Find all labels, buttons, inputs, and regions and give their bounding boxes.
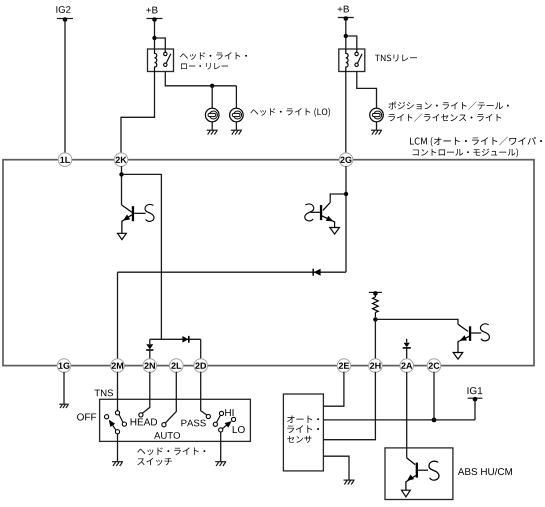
- switch arm LO: [223, 422, 231, 429]
- wire resistor to 2H: [374, 319, 376, 359]
- junction 2C on IG1 line: [432, 418, 437, 423]
- wire +B to relay coil: [154, 19, 156, 49]
- transistor Q4 emitter arrow: [407, 475, 414, 481]
- wire sensor to ground: [323, 456, 349, 480]
- label AUTO: [154, 432, 180, 439]
- transistor Q3 bar: [469, 326, 471, 341]
- label HI: [225, 409, 233, 416]
- label headlight switch line2: [137, 458, 172, 466]
- wire 2N-2D header: [150, 338, 201, 340]
- label TNS relay: [375, 54, 417, 61]
- wire 2G junction to transistor Q2: [330, 194, 346, 203]
- transistor Q4 emitter: [406, 476, 416, 491]
- wire 2M to TNS contact: [117, 372, 119, 411]
- wire 2C down: [433, 372, 435, 420]
- wire to lamp 1: [211, 86, 213, 109]
- label position/tail/license line2: [389, 113, 502, 121]
- relay TNS: [339, 49, 365, 72]
- switch LO contact: [232, 417, 236, 421]
- switch strut HI: [217, 415, 221, 422]
- arrow Q2 to ground: [330, 228, 340, 235]
- wire 2G down: [345, 166, 347, 272]
- wire TNS coil to 2G: [345, 72, 347, 154]
- transistor Q2 emitter arrow: [326, 216, 333, 222]
- ground lamp 1: [207, 130, 218, 134]
- connector 2D: [194, 359, 208, 373]
- switch pivot left: [115, 430, 119, 434]
- transistor Q3 base: [471, 332, 481, 334]
- node +B terminal (left): [146, 7, 157, 14]
- wire +B branch to relay switch: [155, 38, 166, 52]
- connector 2K: [114, 153, 128, 167]
- transistor Q3 emitter: [458, 336, 469, 352]
- wire left pivot to ground: [117, 434, 119, 462]
- wire lamp 2 to ground: [235, 122, 237, 130]
- connector 1L: [58, 153, 72, 167]
- wire 2A to ABS transistor: [406, 372, 408, 458]
- wire +B branch to TNS relay switch: [346, 36, 357, 52]
- wire relay coil to 2K: [121, 72, 155, 154]
- switch pivot right: [219, 428, 223, 432]
- transistor Q2 bar: [320, 205, 322, 220]
- transistor Q1 emitter arrow: [123, 215, 130, 221]
- ground lamp 2: [231, 130, 242, 134]
- wire to lamp 2: [235, 86, 237, 109]
- label ABS HU/CM: [458, 468, 512, 475]
- connector 2H: [369, 359, 383, 373]
- connector 2N: [143, 359, 157, 373]
- transistor Q1 internal squiggle: [145, 204, 154, 221]
- transistor Q4 base: [418, 469, 428, 471]
- wire TNS switch to lamp: [357, 72, 377, 109]
- transistor Q4 collector: [407, 458, 416, 465]
- transistor Q3 emitter arrow: [460, 335, 467, 341]
- junction resistor output: [373, 317, 377, 321]
- arrow Q1 to ground: [118, 233, 127, 239]
- LCM module box: [3, 160, 534, 366]
- node IG1 terminal: [468, 387, 483, 394]
- wire lamp 3 to ground: [376, 122, 378, 130]
- headlight switch box: [100, 399, 251, 441]
- switch strut TNS: [119, 414, 123, 422]
- wire relay switch to lamps: [165, 72, 236, 86]
- connector 2L: [170, 359, 184, 373]
- ground headlight switch right: [215, 462, 226, 466]
- transistor Q4 bar: [416, 463, 418, 478]
- diode D3 to 2D: [182, 336, 188, 343]
- arrow Q4 to ground: [402, 490, 411, 497]
- junction +B branch (right): [344, 34, 348, 38]
- lamp headlight LO left: [205, 108, 219, 122]
- resistor R1: [374, 293, 376, 297]
- switch AUTO contact: [162, 423, 166, 427]
- ground 1G: [59, 404, 69, 408]
- transistor Q1 base: [134, 212, 146, 214]
- label sensor line1: [287, 416, 319, 423]
- wire crossover to 2M with diode: [118, 271, 347, 273]
- transistor Q3 internal squiggle: [480, 324, 489, 341]
- junction +B branch (left): [152, 36, 156, 40]
- junction lamp feed: [210, 84, 214, 88]
- wire 2E to sensor: [323, 372, 344, 406]
- label HEAD: [131, 419, 157, 426]
- transistor Q2 emitter: [322, 216, 335, 228]
- label LO: [233, 426, 245, 433]
- relay headlight-low: [148, 49, 174, 72]
- diode D4 above 2A: [406, 339, 408, 343]
- transistor Q2 collector: [323, 203, 330, 211]
- transistor Q2 base: [311, 211, 320, 213]
- ground lamp 3: [371, 130, 382, 134]
- transistor Q4 internal squiggle: [429, 461, 439, 480]
- arrow Q3 to ground: [453, 353, 463, 360]
- transistor Q3 collector: [458, 324, 468, 331]
- wire header to 2D: [200, 339, 202, 359]
- label headlight-low relay line2: [181, 63, 228, 70]
- label sensor line3: [287, 436, 311, 443]
- label LCM line2: [413, 148, 518, 157]
- junction 2G internal: [344, 192, 348, 196]
- transistor Q1 bar: [132, 206, 134, 221]
- wire 2N to HEAD contact: [142, 372, 150, 414]
- label headlight LO: [250, 108, 329, 117]
- switch arm OFF: [110, 421, 117, 431]
- wire 2H to sensor: [323, 372, 375, 440]
- label sensor line2: [287, 425, 319, 433]
- connector 1G: [57, 359, 71, 373]
- label TNS: [95, 389, 114, 396]
- connector 2G: [339, 153, 353, 167]
- label headlight-low relay line1: [180, 52, 247, 60]
- switch TNS contact: [115, 411, 119, 415]
- node internal supply: [369, 291, 382, 296]
- switch HI contact: [219, 411, 223, 415]
- wire resistor to transistor Q3: [375, 319, 458, 324]
- wire IG1 down: [474, 399, 476, 420]
- auto light sensor box: [283, 394, 323, 471]
- connector 2A: [400, 359, 414, 373]
- connector 2M: [111, 359, 125, 373]
- wire 2L to AUTO contact: [165, 372, 176, 423]
- diode D2 to 2N: [149, 339, 151, 344]
- ground headlight switch left: [112, 462, 123, 466]
- switch HEAD contact: [139, 413, 143, 417]
- connector 2C: [427, 359, 441, 373]
- ground sensor: [344, 480, 355, 484]
- transistor Q2 internal squiggle: [305, 204, 314, 221]
- connector 2E: [337, 359, 351, 373]
- wire right pivot to ground: [220, 432, 222, 461]
- label OFF: [77, 413, 96, 420]
- switch OFF contact: [105, 415, 109, 419]
- ABS HU/CM box: [385, 448, 453, 500]
- lamp position/tail/license: [370, 108, 384, 122]
- label position/tail/license line1: [389, 101, 509, 109]
- transistor Q1 collector: [122, 205, 133, 213]
- wire 2D to PASS contact: [201, 372, 207, 415]
- wire 2K to transistor Q1: [121, 166, 123, 205]
- wire sensor to IG1 horizontal: [323, 419, 475, 421]
- wire +B to TNS relay coil: [345, 18, 347, 49]
- lamp headlight LO right: [230, 108, 244, 122]
- node +B terminal (right): [338, 6, 349, 13]
- switch PASS contact: [206, 414, 210, 418]
- wire 1G to ground: [63, 372, 65, 404]
- transistor Q1 emitter: [122, 215, 132, 233]
- label PASS: [181, 420, 205, 427]
- label LCM line1: [410, 137, 542, 147]
- label headlight switch line1: [137, 447, 205, 455]
- node IG2 terminal: [56, 6, 70, 13]
- diode D1 on crossover: [314, 269, 321, 276]
- junction 2K internal: [119, 172, 123, 176]
- wire IG2 to 1L: [64, 19, 66, 154]
- wire lamp 1 to ground: [211, 122, 213, 130]
- wire 2K junction to 2N branch: [122, 174, 162, 339]
